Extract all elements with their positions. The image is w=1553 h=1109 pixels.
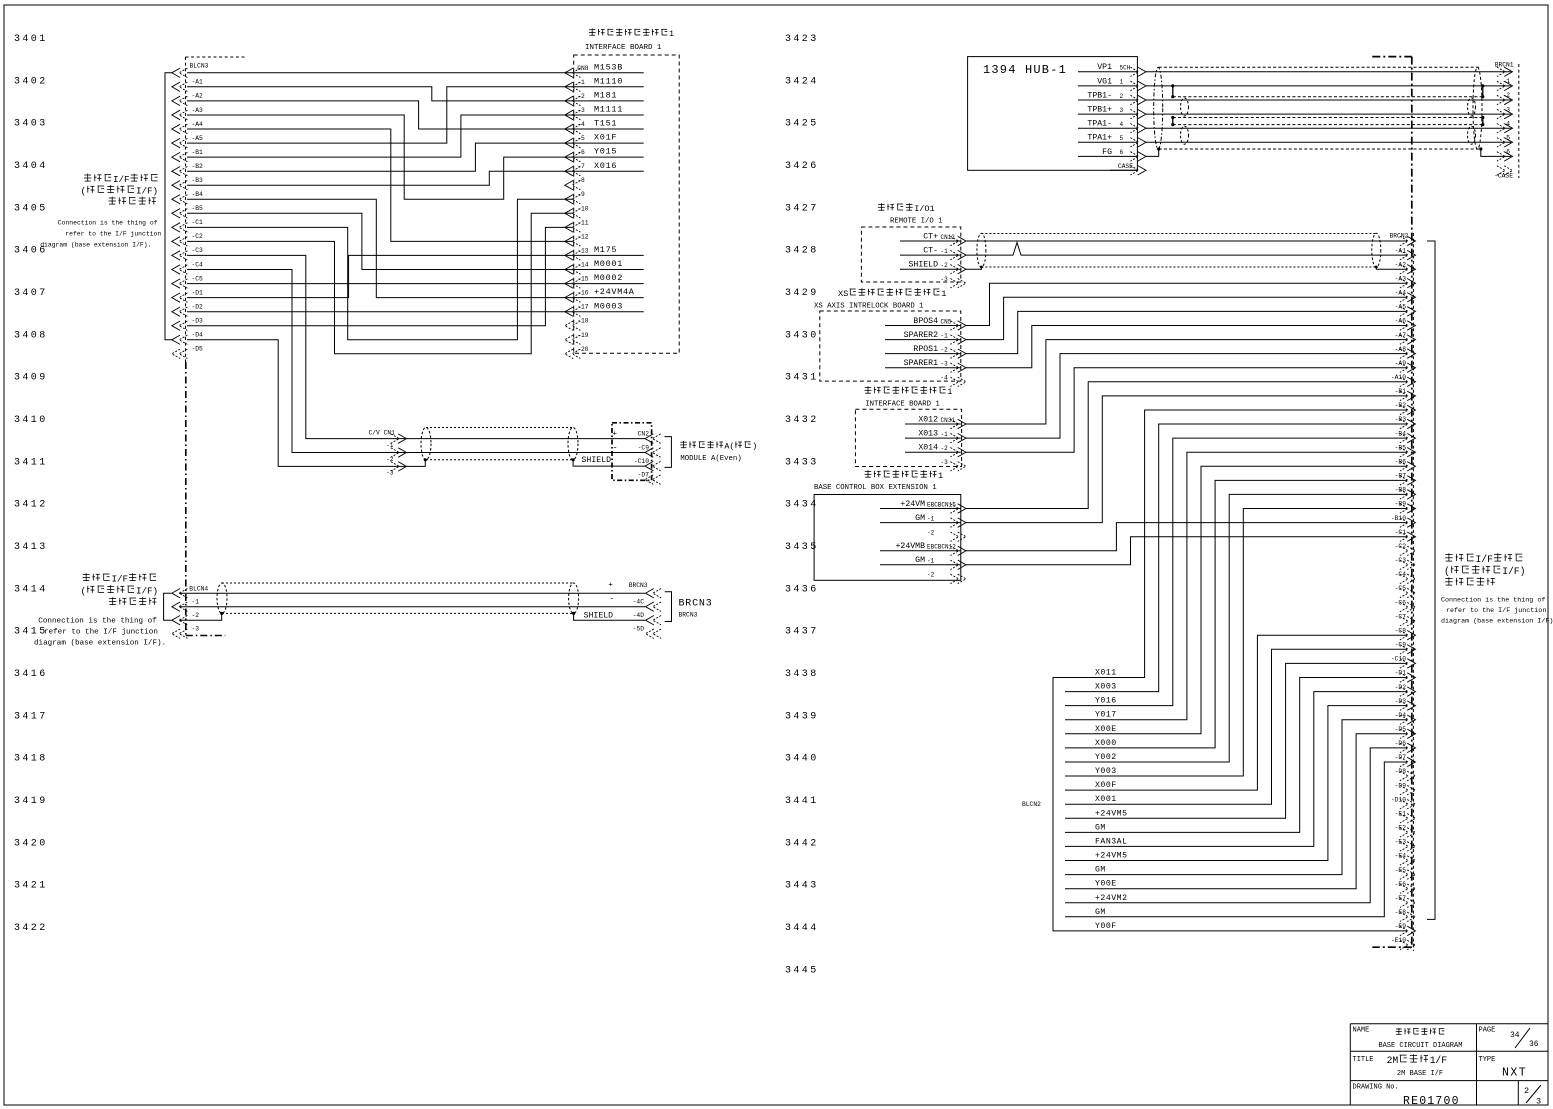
svg-text:3402: 3402 (14, 76, 48, 87)
svg-text:M0001: M0001 (594, 259, 623, 269)
svg-text:-5: -5 (1502, 135, 1510, 142)
svg-text:Y016: Y016 (1095, 697, 1117, 706)
svg-text:-3: -3 (1502, 106, 1510, 113)
svg-text:-13: -13 (577, 247, 589, 254)
svg-text:+24VM2: +24VM2 (1095, 894, 1127, 903)
svg-text:3417: 3417 (14, 711, 48, 722)
svg-text:diagram (base extension I/F).: diagram (base extension I/F). (40, 242, 151, 249)
svg-text:NAME: NAME (1353, 1027, 1370, 1035)
svg-text:-E2: -E2 (1395, 825, 1407, 832)
svg-text:CN31: CN31 (941, 417, 956, 424)
svg-text:): ) (1520, 566, 1526, 577)
svg-text:BLCN2: BLCN2 (1022, 801, 1041, 808)
svg-text:NXT: NXT (1502, 1067, 1527, 1080)
svg-text:M0003: M0003 (594, 301, 623, 311)
svg-text:-B3: -B3 (192, 177, 204, 184)
svg-text:X012: X012 (918, 415, 938, 424)
svg-text:3412: 3412 (14, 500, 48, 511)
svg-text:-D2: -D2 (192, 304, 204, 311)
svg-text:-2: -2 (941, 262, 949, 269)
svg-text:-E7: -E7 (1395, 895, 1407, 902)
svg-text:-D3: -D3 (1395, 698, 1407, 705)
svg-text:-A8: -A8 (1395, 346, 1407, 353)
svg-text:-D7: -D7 (638, 471, 650, 478)
svg-text:-6: -6 (577, 149, 585, 156)
svg-text:Y002: Y002 (1095, 753, 1117, 762)
svg-text:M0002: M0002 (594, 273, 623, 283)
svg-text:-A2: -A2 (1395, 261, 1407, 268)
svg-text:-C5: -C5 (1395, 585, 1407, 592)
svg-text:3442: 3442 (785, 838, 819, 849)
svg-text:X013: X013 (918, 430, 938, 439)
svg-text:1: 1 (930, 204, 935, 214)
svg-text:-3: -3 (941, 276, 949, 283)
svg-text:VG1: VG1 (1097, 77, 1112, 86)
svg-text:3409: 3409 (14, 373, 48, 384)
svg-text:X016: X016 (594, 161, 617, 171)
svg-text:EBCBCN15: EBCBCN15 (927, 501, 956, 508)
svg-text:-CASE: -CASE (1494, 173, 1513, 180)
svg-text:-B1: -B1 (1395, 388, 1407, 395)
svg-text:diagram (base extension I/F).: diagram (base extension I/F). (34, 640, 166, 648)
svg-text:-: - (613, 442, 618, 452)
svg-text:GM: GM (1095, 866, 1106, 875)
svg-text:3434: 3434 (785, 500, 819, 511)
svg-text:(: ( (81, 186, 87, 197)
svg-text:-D10: -D10 (1391, 796, 1406, 803)
svg-text:3421: 3421 (14, 881, 48, 892)
svg-text:REMOTE I/O 1: REMOTE I/O 1 (890, 218, 943, 226)
svg-text:34: 34 (1510, 1031, 1520, 1040)
svg-text:F: F (123, 574, 129, 585)
svg-text:Y00E: Y00E (1095, 880, 1117, 889)
svg-text:TPA1-: TPA1- (1087, 120, 1112, 129)
svg-text:3407: 3407 (14, 288, 48, 299)
svg-text:-15: -15 (577, 276, 589, 283)
svg-text:DRAWING No.: DRAWING No. (1353, 1084, 1399, 1092)
svg-text:5: 5 (1120, 135, 1124, 142)
svg-text:3415: 3415 (14, 627, 48, 638)
svg-text:1: 1 (938, 471, 943, 481)
svg-text:3423: 3423 (785, 34, 819, 45)
svg-text:-3: -3 (941, 361, 949, 368)
svg-text:3427: 3427 (785, 203, 819, 214)
svg-text:-1: -1 (927, 515, 935, 522)
svg-text:-A6: -A6 (1395, 318, 1407, 325)
svg-text:-C2: -C2 (1395, 543, 1407, 550)
svg-text:SHIELD: SHIELD (909, 261, 939, 270)
svg-text:3403: 3403 (14, 119, 48, 130)
svg-text:-B8: -B8 (1395, 487, 1407, 494)
svg-text:-A1: -A1 (192, 79, 204, 86)
svg-text:М: М (1392, 1055, 1398, 1066)
svg-text:X00E: X00E (1095, 725, 1117, 734)
svg-text:-D2: -D2 (1395, 684, 1407, 691)
svg-text:3408: 3408 (14, 330, 48, 341)
svg-text:5CH: 5CH (1120, 65, 1131, 72)
svg-text:(: ( (81, 586, 87, 597)
svg-text:GM: GM (915, 514, 925, 523)
svg-text:-5D: -5D (633, 626, 645, 633)
svg-text:-D9: -D9 (1395, 782, 1407, 789)
svg-text:4: 4 (1120, 121, 1124, 128)
svg-text:-4: -4 (577, 121, 585, 128)
svg-text:RE01700: RE01700 (1403, 1095, 1460, 1108)
svg-text:SPARER1: SPARER1 (904, 359, 938, 368)
svg-text:-D3: -D3 (192, 318, 204, 325)
svg-text:-C7: -C7 (1395, 613, 1407, 620)
svg-text:(: ( (1444, 566, 1450, 577)
svg-text:-A1: -A1 (1395, 247, 1407, 254)
svg-text:refer to the I/F junction: refer to the I/F junction (44, 629, 158, 637)
svg-text:-D5: -D5 (192, 346, 204, 353)
svg-text:-B6: -B6 (1395, 459, 1407, 466)
svg-text:-18: -18 (577, 318, 589, 325)
svg-text:-E8: -E8 (1395, 909, 1407, 916)
svg-text:-A2: -A2 (192, 93, 204, 100)
svg-text:-B10: -B10 (1391, 515, 1406, 522)
svg-text:3431: 3431 (785, 373, 819, 384)
svg-text:-A9: -A9 (1395, 360, 1407, 367)
svg-text:-C4: -C4 (192, 261, 204, 268)
svg-text:3420: 3420 (14, 838, 48, 849)
svg-text:M1111: M1111 (594, 105, 623, 115)
svg-text:2: 2 (1120, 93, 1124, 100)
svg-text:+: + (613, 430, 618, 438)
svg-text:+24VMB: +24VMB (896, 542, 926, 551)
svg-text:-D6: -D6 (1395, 740, 1407, 747)
svg-text:-7: -7 (577, 163, 585, 170)
svg-text:): ) (752, 442, 757, 452)
svg-text:BRCN3: BRCN3 (679, 599, 713, 610)
svg-text:PAGE: PAGE (1479, 1027, 1496, 1035)
svg-text:-19: -19 (577, 332, 589, 339)
svg-text:-A4: -A4 (1395, 290, 1407, 297)
svg-text:-C1: -C1 (192, 219, 204, 226)
svg-text:3433: 3433 (785, 457, 819, 468)
svg-text:-1: -1 (577, 79, 585, 86)
svg-text:-1: -1 (1502, 78, 1510, 85)
svg-text:-B2: -B2 (1395, 402, 1407, 409)
svg-text:Y00F: Y00F (1095, 922, 1117, 931)
svg-text:3443: 3443 (785, 881, 819, 892)
svg-text:-B4: -B4 (1395, 430, 1407, 437)
svg-text:Connection is the thing of: Connection is the thing of (58, 220, 158, 227)
svg-text:X00F: X00F (1095, 781, 1117, 790)
svg-text:-1: -1 (941, 248, 949, 255)
svg-text:-16: -16 (577, 290, 589, 297)
svg-text:BRCN2: BRCN2 (1390, 233, 1409, 240)
svg-text:-C6: -C6 (1395, 599, 1407, 606)
svg-text:1: 1 (669, 29, 674, 39)
svg-text:-8: -8 (577, 177, 585, 184)
svg-text:-C1: -C1 (1395, 529, 1407, 536)
svg-text:-3: -3 (192, 626, 200, 633)
svg-text:SHIELD: SHIELD (582, 456, 612, 465)
svg-text:BRCN3: BRCN3 (629, 582, 648, 589)
svg-text:-B4: -B4 (192, 191, 204, 198)
svg-text:-10: -10 (577, 205, 589, 212)
svg-text:Y003: Y003 (1095, 767, 1117, 776)
svg-text:3414: 3414 (14, 584, 48, 595)
svg-text:CT-: CT- (923, 247, 938, 256)
svg-text:F: F (124, 174, 130, 185)
svg-text:-E4: -E4 (1395, 853, 1407, 860)
svg-text:-D4: -D4 (192, 332, 204, 339)
svg-text:TYPE: TYPE (1479, 1056, 1496, 1064)
svg-text:): ) (153, 186, 159, 197)
svg-text:3422: 3422 (14, 923, 48, 934)
svg-text:BPOS4: BPOS4 (913, 317, 938, 326)
svg-text:MODULE A(Even): MODULE A(Even) (680, 455, 741, 463)
svg-text:CN5: CN5 (941, 318, 952, 325)
svg-text:-4: -4 (941, 375, 949, 382)
svg-text:+24VM: +24VM (900, 500, 925, 509)
svg-text:-D1: -D1 (1395, 670, 1407, 677)
svg-text:3438: 3438 (785, 669, 819, 680)
svg-text:BRCN3: BRCN3 (679, 612, 698, 619)
svg-text:-3: -3 (386, 470, 394, 477)
svg-text:X003: X003 (1095, 683, 1117, 692)
svg-text:+24VM5: +24VM5 (1095, 852, 1127, 861)
svg-text:GM: GM (915, 556, 925, 565)
svg-text:+: + (608, 582, 613, 590)
svg-text:XS AXIS INTRELOCK BOARD 1: XS AXIS INTRELOCK BOARD 1 (814, 303, 924, 311)
svg-text:SHIELD: SHIELD (584, 612, 614, 621)
svg-text:3430: 3430 (785, 330, 819, 341)
svg-text:-E5: -E5 (1395, 867, 1407, 874)
svg-text:-2: -2 (1502, 92, 1510, 99)
svg-text:BASE CONTROL BOX EXTENSION 1: BASE CONTROL BOX EXTENSION 1 (814, 484, 937, 492)
svg-text:CN2: CN2 (638, 430, 650, 437)
svg-text:-6: -6 (1502, 149, 1510, 156)
svg-text:2M BASE I/F: 2M BASE I/F (1397, 1070, 1443, 1078)
svg-text:-A4: -A4 (192, 121, 204, 128)
svg-text:-E6: -E6 (1395, 881, 1407, 888)
svg-text:TPB1+: TPB1+ (1087, 106, 1112, 115)
svg-text:3416: 3416 (14, 669, 48, 680)
svg-text:): ) (153, 586, 159, 597)
svg-text:3441: 3441 (785, 796, 819, 807)
svg-text:-9: -9 (577, 191, 585, 198)
svg-text:3444: 3444 (785, 923, 819, 934)
svg-text:T151: T151 (594, 119, 617, 129)
svg-text:-E1: -E1 (1395, 811, 1407, 818)
svg-text:CN12: CN12 (941, 234, 956, 241)
svg-text:-A5: -A5 (192, 135, 204, 142)
svg-text:-E10: -E10 (1391, 937, 1406, 944)
svg-text:-D1: -D1 (192, 289, 204, 296)
svg-text:-1: -1 (941, 332, 949, 339)
svg-text:FG: FG (1102, 148, 1112, 157)
svg-text:-A3: -A3 (192, 107, 204, 114)
svg-text:-2: -2 (386, 456, 394, 463)
svg-text:-E9: -E9 (1395, 923, 1407, 930)
svg-text:-B2: -B2 (192, 163, 204, 170)
svg-text:3401: 3401 (14, 34, 48, 45)
svg-text:-B9: -B9 (1395, 501, 1407, 508)
svg-text:VP1: VP1 (1097, 63, 1112, 72)
svg-text:1: 1 (1120, 79, 1124, 86)
svg-text:3429: 3429 (785, 288, 819, 299)
svg-text:M1110: M1110 (594, 76, 623, 86)
svg-text:CT+: CT+ (923, 232, 938, 241)
svg-text:6: 6 (1120, 149, 1124, 156)
svg-text:-B1: -B1 (192, 149, 204, 156)
svg-text:X01F: X01F (594, 133, 617, 143)
svg-text:BLCN4: BLCN4 (189, 586, 208, 593)
svg-text:SPARER2: SPARER2 (904, 331, 938, 340)
svg-text:36: 36 (1529, 1040, 1539, 1049)
svg-text:+24VM5: +24VM5 (1095, 809, 1127, 818)
svg-text:F: F (1441, 1055, 1447, 1066)
svg-text:RPOS1: RPOS1 (913, 345, 938, 354)
svg-text:F: F (1487, 554, 1493, 565)
svg-text:3410: 3410 (14, 415, 48, 426)
svg-text:-2: -2 (941, 346, 949, 353)
svg-text:3432: 3432 (785, 415, 819, 426)
svg-text:X011: X011 (1095, 669, 1117, 678)
svg-text:3419: 3419 (14, 796, 48, 807)
svg-text:-1: -1 (192, 599, 200, 606)
svg-text:X000: X000 (1095, 739, 1117, 748)
svg-text:3404: 3404 (14, 161, 48, 172)
svg-text:2: 2 (1524, 1086, 1529, 1096)
svg-text:S: S (843, 289, 848, 299)
svg-text:-1: -1 (941, 431, 949, 438)
svg-text:-4C: -4C (633, 599, 645, 606)
svg-text:-C3: -C3 (1395, 557, 1407, 564)
svg-text:3435: 3435 (785, 542, 819, 553)
svg-text:INTERFACE BOARD 1: INTERFACE BOARD 1 (585, 44, 662, 52)
svg-text:-C10: -C10 (634, 458, 649, 465)
svg-text:-B7: -B7 (1395, 473, 1407, 480)
svg-text:INTERFACE BOARD 1: INTERFACE BOARD 1 (865, 401, 940, 409)
svg-text:+24VM4A: +24VM4A (594, 287, 635, 297)
svg-text:Y015: Y015 (594, 147, 617, 157)
svg-text:-D5: -D5 (1395, 726, 1407, 733)
svg-text:-C3: -C3 (192, 247, 204, 254)
svg-text:CASE: CASE (1118, 163, 1133, 170)
svg-text:-D8: -D8 (1395, 768, 1407, 775)
svg-text:M175: M175 (594, 245, 617, 255)
svg-text:EBCBCN12: EBCBCN12 (927, 544, 956, 551)
svg-text:3437: 3437 (785, 627, 819, 638)
svg-text:-E3: -E3 (1395, 839, 1407, 846)
svg-text:3413: 3413 (14, 542, 48, 553)
svg-text:TPA1+: TPA1+ (1087, 134, 1112, 143)
svg-text:-11: -11 (577, 219, 589, 226)
svg-text:-20: -20 (577, 346, 589, 353)
svg-text:Connection is the thing of: Connection is the thing of (38, 618, 157, 626)
svg-text:BASE CIRCUIT DIAGRAM: BASE CIRCUIT DIAGRAM (1378, 1042, 1462, 1050)
svg-text:1: 1 (941, 289, 946, 299)
svg-text:-17: -17 (577, 304, 589, 311)
svg-text:-C8: -C8 (1395, 627, 1407, 634)
svg-text:-12: -12 (577, 233, 589, 240)
svg-text:-1: -1 (386, 442, 394, 449)
svg-text:3425: 3425 (785, 119, 819, 130)
svg-text:3: 3 (1536, 1097, 1541, 1107)
svg-text:3428: 3428 (785, 246, 819, 257)
svg-text:GM: GM (1095, 823, 1106, 832)
svg-text:X001: X001 (1095, 795, 1117, 804)
svg-text:3445: 3445 (785, 965, 819, 976)
svg-text:Y017: Y017 (1095, 711, 1117, 720)
svg-text:-B3: -B3 (1395, 416, 1407, 423)
svg-text:-2: -2 (941, 445, 949, 452)
svg-text:3405: 3405 (14, 203, 48, 214)
svg-text:-5: -5 (577, 135, 585, 142)
svg-text:M153B: M153B (594, 62, 623, 72)
svg-text:X014: X014 (918, 444, 938, 453)
svg-text:M181: M181 (594, 91, 617, 101)
svg-text:-B5: -B5 (192, 205, 204, 212)
svg-text:C/V CN1: C/V CN1 (369, 430, 396, 437)
svg-text:-14: -14 (577, 262, 589, 269)
svg-text:Connection is the thing of: Connection is the thing of (1441, 597, 1545, 605)
svg-text:FAN3AL: FAN3AL (1095, 837, 1127, 846)
svg-text:diagram (base extension I/F).: diagram (base extension I/F). (1441, 618, 1553, 626)
svg-text:-2: -2 (927, 572, 935, 579)
svg-text:TPB1-: TPB1- (1087, 91, 1112, 100)
svg-text:-4: -4 (1502, 120, 1510, 127)
svg-text:-C2: -C2 (192, 233, 204, 240)
svg-text:TITLE: TITLE (1353, 1056, 1374, 1064)
svg-text:refer to the I/F junction: refer to the I/F junction (65, 231, 161, 238)
svg-text:3411: 3411 (14, 457, 48, 468)
svg-text:-C10: -C10 (1391, 656, 1406, 663)
svg-text:-C9: -C9 (638, 444, 650, 451)
svg-text:-2: -2 (577, 93, 585, 100)
svg-text:-2: -2 (192, 612, 200, 619)
svg-text:-: - (609, 593, 614, 603)
svg-text:3439: 3439 (785, 711, 819, 722)
svg-text:-1: -1 (927, 558, 935, 565)
svg-text:-B5: -B5 (1395, 444, 1407, 451)
svg-text:3426: 3426 (785, 161, 819, 172)
svg-text:-D4: -D4 (1395, 712, 1407, 719)
svg-text:(: ( (729, 442, 734, 452)
svg-text:-A10: -A10 (1391, 374, 1406, 381)
svg-text:-3: -3 (941, 459, 949, 466)
svg-text:3: 3 (1120, 107, 1124, 114)
svg-text:-4D: -4D (633, 612, 645, 619)
svg-text:-3: -3 (577, 107, 585, 114)
svg-text:GM: GM (1095, 908, 1106, 917)
svg-text:BLCN3: BLCN3 (190, 63, 209, 70)
svg-text:-A7: -A7 (1395, 332, 1407, 339)
svg-text:refer to the I/F junction: refer to the I/F junction (1446, 607, 1546, 615)
svg-text:CN8: CN8 (577, 65, 589, 72)
svg-text:-2: -2 (927, 530, 935, 537)
svg-text:3440: 3440 (785, 754, 819, 765)
svg-text:3418: 3418 (14, 754, 48, 765)
svg-text:-C5: -C5 (192, 275, 204, 282)
svg-text:1394 HUB-1: 1394 HUB-1 (983, 63, 1067, 77)
svg-text:3436: 3436 (785, 584, 819, 595)
svg-text:1: 1 (947, 387, 952, 397)
svg-text:-A3: -A3 (1395, 275, 1407, 282)
svg-text:-D7: -D7 (1395, 754, 1407, 761)
svg-text:-C4: -C4 (1395, 571, 1407, 578)
svg-text:3424: 3424 (785, 76, 819, 87)
svg-text:-C9: -C9 (1395, 642, 1407, 649)
svg-text:-A5: -A5 (1395, 304, 1407, 311)
